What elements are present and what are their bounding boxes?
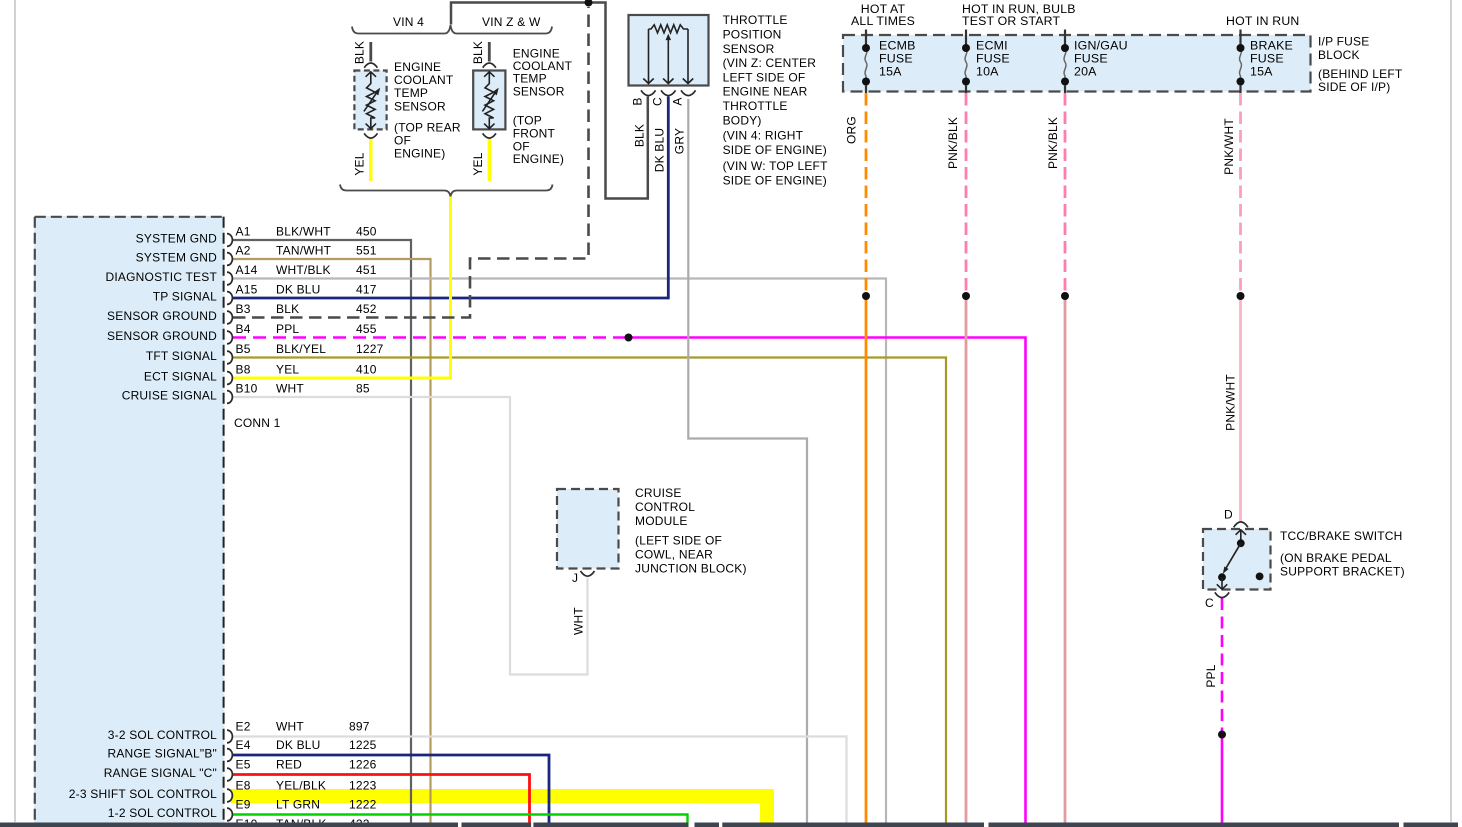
svg-text:E4: E4 [236,738,251,752]
svg-text:(ON BRAKE PEDAL: (ON BRAKE PEDAL [1280,551,1392,565]
svg-text:ECMI: ECMI [976,39,1008,53]
svg-text:1222: 1222 [349,798,377,812]
svg-text:COWL, NEAR: COWL, NEAR [635,547,713,561]
svg-text:THROTTLE: THROTTLE [723,99,788,113]
svg-text:(VIN Z: CENTER: (VIN Z: CENTER [723,56,817,70]
svg-text:TEST OR START: TEST OR START [962,14,1061,28]
svg-text:SENSOR: SENSOR [723,42,775,56]
svg-text:1223: 1223 [349,779,377,793]
svg-text:ENGINE): ENGINE) [394,147,445,161]
svg-text:ECT SIGNAL: ECT SIGNAL [144,370,217,384]
svg-text:410: 410 [356,363,377,377]
svg-text:RANGE SIGNAL"B": RANGE SIGNAL"B" [107,747,217,761]
svg-text:B4: B4 [236,322,251,336]
svg-text:A15: A15 [236,283,258,297]
svg-text:1225: 1225 [349,738,377,752]
svg-text:CONTROL: CONTROL [635,500,695,514]
svg-text:SENSOR: SENSOR [394,99,446,113]
svg-text:OF: OF [513,139,530,153]
svg-text:A2: A2 [236,244,251,258]
svg-text:A: A [671,97,685,105]
svg-text:1227: 1227 [356,342,384,356]
svg-text:COOLANT: COOLANT [394,73,454,87]
svg-text:CONN 1: CONN 1 [234,416,281,430]
svg-text:BLK: BLK [471,41,485,64]
svg-text:TEMP: TEMP [394,86,428,100]
svg-text:A14: A14 [236,263,258,277]
svg-text:ENGINE NEAR: ENGINE NEAR [723,85,808,99]
svg-text:15A: 15A [879,65,902,79]
svg-text:ORG: ORG [845,116,859,144]
svg-text:SIDE OF ENGINE): SIDE OF ENGINE) [723,173,827,187]
svg-text:THROTTLE: THROTTLE [723,13,788,27]
svg-text:BLOCK: BLOCK [1318,48,1360,62]
svg-text:BLK: BLK [276,302,299,316]
svg-text:E9: E9 [236,798,251,812]
svg-text:WHT: WHT [276,382,304,396]
svg-text:E2: E2 [236,720,251,734]
svg-text:HOT IN RUN: HOT IN RUN [1226,14,1300,28]
svg-text:3-2 SOL CONTROL: 3-2 SOL CONTROL [108,728,217,742]
svg-text:TAN/WHT: TAN/WHT [276,244,332,258]
svg-text:PPL: PPL [1204,664,1218,687]
svg-text:SENSOR: SENSOR [513,84,565,98]
svg-text:MODULE: MODULE [635,514,688,528]
svg-text:YEL: YEL [353,152,367,175]
svg-text:PNK/BLK: PNK/BLK [946,117,960,169]
svg-text:PNK/WHT: PNK/WHT [1222,118,1236,175]
svg-text:10A: 10A [976,65,999,79]
svg-text:SYSTEM GND: SYSTEM GND [136,232,217,246]
svg-text:RED: RED [276,758,302,772]
svg-text:1226: 1226 [349,758,377,772]
svg-text:WHT: WHT [572,607,586,635]
svg-text:ALL TIMES: ALL TIMES [851,14,915,28]
svg-text:(LEFT SIDE OF: (LEFT SIDE OF [635,534,722,548]
svg-text:ECMB: ECMB [879,39,916,53]
svg-text:CRUISE: CRUISE [635,486,682,500]
svg-text:YEL: YEL [276,363,299,377]
svg-text:B3: B3 [236,302,251,316]
svg-text:BLK: BLK [633,124,647,147]
svg-text:TP SIGNAL: TP SIGNAL [153,290,217,304]
svg-text:DK BLU: DK BLU [653,128,667,173]
svg-text:POSITION: POSITION [723,28,782,42]
svg-text:WHT: WHT [276,720,304,734]
svg-text:FUSE: FUSE [879,52,913,66]
svg-text:(VIN W: TOP LEFT: (VIN W: TOP LEFT [723,159,828,173]
svg-text:SIDE OF ENGINE): SIDE OF ENGINE) [723,143,827,157]
svg-text:I/P FUSE: I/P FUSE [1318,34,1369,48]
svg-text:TCC/BRAKE SWITCH: TCC/BRAKE SWITCH [1280,529,1403,543]
svg-text:SUPPORT BRACKET): SUPPORT BRACKET) [1280,565,1405,579]
svg-text:GRY: GRY [673,128,687,154]
svg-text:D: D [1224,508,1233,522]
svg-text:VIN 4: VIN 4 [393,15,424,29]
svg-text:1-2 SOL CONTROL: 1-2 SOL CONTROL [108,806,217,820]
svg-text:451: 451 [356,263,377,277]
svg-text:B5: B5 [236,342,251,356]
svg-text:(BEHIND LEFT: (BEHIND LEFT [1318,67,1403,81]
svg-text:PNK/BLK: PNK/BLK [1046,117,1060,169]
svg-text:SENSOR GROUND: SENSOR GROUND [107,329,217,343]
svg-text:897: 897 [349,720,370,734]
svg-text:FUSE: FUSE [1250,52,1284,66]
svg-text:B8: B8 [236,363,251,377]
svg-text:IGN/GAU: IGN/GAU [1074,39,1128,53]
svg-text:(VIN 4: RIGHT: (VIN 4: RIGHT [723,129,804,143]
svg-text:FRONT: FRONT [513,126,556,140]
svg-text:E8: E8 [236,779,251,793]
svg-text:J: J [572,571,578,585]
svg-text:450: 450 [356,225,377,239]
svg-text:2-3 SHIFT SOL CONTROL: 2-3 SHIFT SOL CONTROL [69,787,217,801]
svg-text:RANGE SIGNAL "C": RANGE SIGNAL "C" [104,766,217,780]
svg-text:(TOP REAR: (TOP REAR [394,121,461,135]
svg-text:BLK: BLK [353,41,367,64]
svg-text:DIAGNOSTIC TEST: DIAGNOSTIC TEST [106,270,218,284]
svg-text:LEFT SIDE OF: LEFT SIDE OF [723,70,806,84]
svg-text:SIDE OF I/P): SIDE OF I/P) [1318,80,1390,94]
svg-text:TFT SIGNAL: TFT SIGNAL [146,349,217,363]
svg-text:455: 455 [356,322,377,336]
svg-text:ENGINE): ENGINE) [513,152,564,166]
svg-text:OF: OF [394,134,411,148]
svg-text:PPL: PPL [276,322,299,336]
svg-text:YEL: YEL [471,152,485,175]
svg-text:PNK/WHT: PNK/WHT [1224,374,1238,431]
svg-text:DK BLU: DK BLU [276,283,321,297]
svg-text:B10: B10 [236,382,258,396]
svg-text:SYSTEM GND: SYSTEM GND [136,251,217,265]
svg-text:20A: 20A [1074,65,1097,79]
svg-text:CRUISE SIGNAL: CRUISE SIGNAL [122,389,217,403]
svg-text:(TOP: (TOP [513,114,542,128]
svg-text:DK BLU: DK BLU [276,738,321,752]
svg-text:BODY): BODY) [723,113,762,127]
svg-text:FUSE: FUSE [1074,52,1108,66]
svg-text:C: C [651,97,665,106]
svg-text:FUSE: FUSE [976,52,1010,66]
svg-text:BLK/YEL: BLK/YEL [276,342,326,356]
svg-text:VIN Z & W: VIN Z & W [482,15,541,29]
svg-text:LT GRN: LT GRN [276,798,320,812]
svg-text:YEL/BLK: YEL/BLK [276,779,326,793]
svg-text:A1: A1 [236,225,251,239]
svg-text:SENSOR GROUND: SENSOR GROUND [107,309,217,323]
svg-text:BRAKE: BRAKE [1250,39,1293,53]
svg-text:JUNCTION BLOCK): JUNCTION BLOCK) [635,561,747,575]
svg-text:BLK/WHT: BLK/WHT [276,225,331,239]
svg-text:417: 417 [356,283,377,297]
svg-text:B: B [631,97,645,105]
svg-text:ENGINE: ENGINE [394,60,441,74]
svg-text:85: 85 [356,382,370,396]
svg-text:C: C [1205,596,1214,610]
svg-text:WHT/BLK: WHT/BLK [276,263,331,277]
svg-text:551: 551 [356,244,377,258]
svg-text:452: 452 [356,302,377,316]
svg-text:E5: E5 [236,758,251,772]
svg-text:15A: 15A [1250,65,1273,79]
